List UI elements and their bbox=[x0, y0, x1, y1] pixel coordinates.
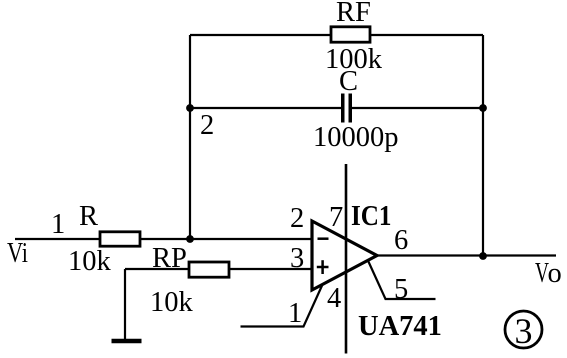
svg-text:2: 2 bbox=[200, 110, 214, 141]
svg-text:RP: RP bbox=[152, 243, 187, 274]
svg-text:10000p: 10000p bbox=[313, 122, 399, 153]
svg-text:R: R bbox=[79, 201, 98, 232]
svg-text:Vi: Vi bbox=[7, 238, 28, 269]
svg-text:10k: 10k bbox=[68, 246, 112, 277]
svg-text:RF: RF bbox=[336, 0, 371, 28]
svg-text:3: 3 bbox=[290, 243, 304, 274]
svg-text:4: 4 bbox=[327, 283, 341, 314]
svg-text:5: 5 bbox=[394, 274, 408, 305]
svg-text:2: 2 bbox=[290, 203, 304, 234]
svg-text:10k: 10k bbox=[150, 287, 194, 318]
svg-text:6: 6 bbox=[394, 225, 408, 256]
svg-text:7: 7 bbox=[329, 202, 343, 233]
svg-text:C: C bbox=[339, 66, 358, 97]
svg-text:UA741: UA741 bbox=[358, 311, 442, 342]
svg-text:o: o bbox=[548, 258, 562, 289]
svg-text:IC1: IC1 bbox=[351, 201, 392, 232]
svg-text:1: 1 bbox=[51, 209, 65, 240]
svg-text:1: 1 bbox=[288, 298, 302, 329]
svg-text:3: 3 bbox=[515, 311, 533, 351]
